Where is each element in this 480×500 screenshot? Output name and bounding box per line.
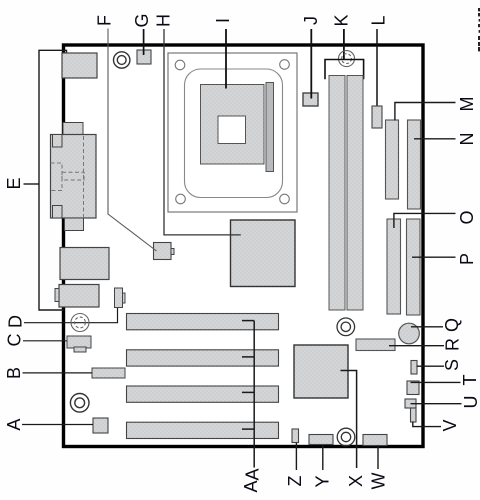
wire D callout [24,308,118,323]
wire A callout [22,424,93,426]
svg-text:S: S [442,359,462,371]
wire W callout [377,446,379,470]
wire H callout [164,29,241,235]
component A [93,418,108,433]
wire X callout [341,371,357,469]
svg-text:R: R [443,338,463,351]
svg-text:M: M [457,97,477,112]
wire Q callout [411,326,443,328]
component T [407,381,419,395]
component R [356,339,395,351]
wire G callout [143,29,145,55]
wire F callout [108,29,157,252]
svg-text:W: W [369,473,389,490]
svg-text:B: B [4,367,24,379]
mounting hole near battery [337,318,355,336]
svg-text:O: O [457,210,477,224]
wire J callout [310,29,312,99]
component N [408,120,421,209]
svg-text:T: T [460,375,480,386]
wire K bracket [325,60,364,80]
wire S callout [417,365,445,367]
svg-text:E: E [4,177,24,189]
component Z [292,429,299,443]
component P [407,219,421,315]
CPU die [218,116,246,144]
wire L callout [376,29,378,107]
CPU package U1 [201,85,265,165]
board outline [64,45,424,447]
svg-text:G: G [132,13,152,27]
CPU socket lever [266,83,274,172]
wire AA callout [242,321,254,468]
component V [411,408,417,422]
wire Z callout [295,443,297,470]
component D (CD-ROM audio conn) [115,288,126,308]
mounting hole near K [339,51,355,67]
connector E bottom tab [65,218,84,231]
svg-text:I: I [213,18,233,23]
connector E bottom-left step [53,206,63,219]
wire U callout [411,403,462,405]
component S [411,361,417,375]
MCH chipset H [231,220,296,287]
wire M callout [395,103,456,121]
mounting hole left upper [71,314,89,332]
mounting hole bottom centre [337,428,355,446]
connector E main body [51,135,97,219]
svg-text:J: J [301,16,321,25]
AGP slot [127,314,279,330]
component F (fan header) [154,243,175,260]
component L [372,106,382,128]
svg-text:Y: Y [312,475,332,487]
svg-text:C: C [5,334,25,347]
svg-text:D: D [6,315,26,328]
label AA [241,468,262,492]
figure number OM14577 clipped at edge [478,8,480,51]
svg-text:A: A [4,419,24,431]
svg-text:P: P [457,253,477,265]
DIMM socket 2 [347,76,363,311]
svg-text:K: K [332,14,352,26]
svg-text:U: U [461,396,480,409]
wire N callout [414,138,456,140]
connector E dashed internals [51,136,85,217]
PCI slot 2 [127,386,279,402]
wire R callout [389,345,444,347]
PCI slot 1 [127,350,279,366]
component Y [309,435,333,445]
wire C callout [23,340,67,342]
connector F top rect (USB) [62,53,97,78]
wire I callout [225,29,227,89]
mounting hole left lower [70,394,89,413]
svg-text:F: F [95,15,115,26]
DIMM socket 1 [329,76,345,311]
svg-text:H: H [154,14,174,27]
wire T callout [411,381,461,383]
mounting hole near G [114,52,130,68]
connector audio tab [55,289,59,302]
svg-text:V: V [440,419,460,431]
svg-text:N: N [457,133,477,146]
battery Q [399,323,420,344]
svg-text:A: A [242,468,262,480]
connector audio [59,285,99,308]
svg-text:X: X [346,475,366,487]
wire Y callout [322,445,324,470]
CPU socket frame [168,53,297,212]
component W [363,435,387,446]
connector E top tab [63,123,83,135]
wire B callout [23,372,93,374]
wire V callout [413,422,441,427]
PCI slot 3 [127,422,279,438]
svg-text:L: L [369,15,389,25]
component G [137,50,151,64]
component M [386,120,399,199]
connector LAN block [60,248,109,280]
connector E top-left step [53,135,63,148]
component B [92,368,125,378]
component O [387,219,401,314]
wire O callout [394,213,456,228]
component U [405,399,416,408]
ICH chipset X [294,345,348,398]
svg-text:Q: Q [442,318,462,332]
component C [67,336,91,352]
wire P callout [412,256,456,258]
svg-text:A: A [241,480,261,492]
wire E bracket [24,50,67,310]
svg-text:Z: Z [285,476,305,487]
wire K callout [343,29,345,60]
component J [303,93,318,106]
